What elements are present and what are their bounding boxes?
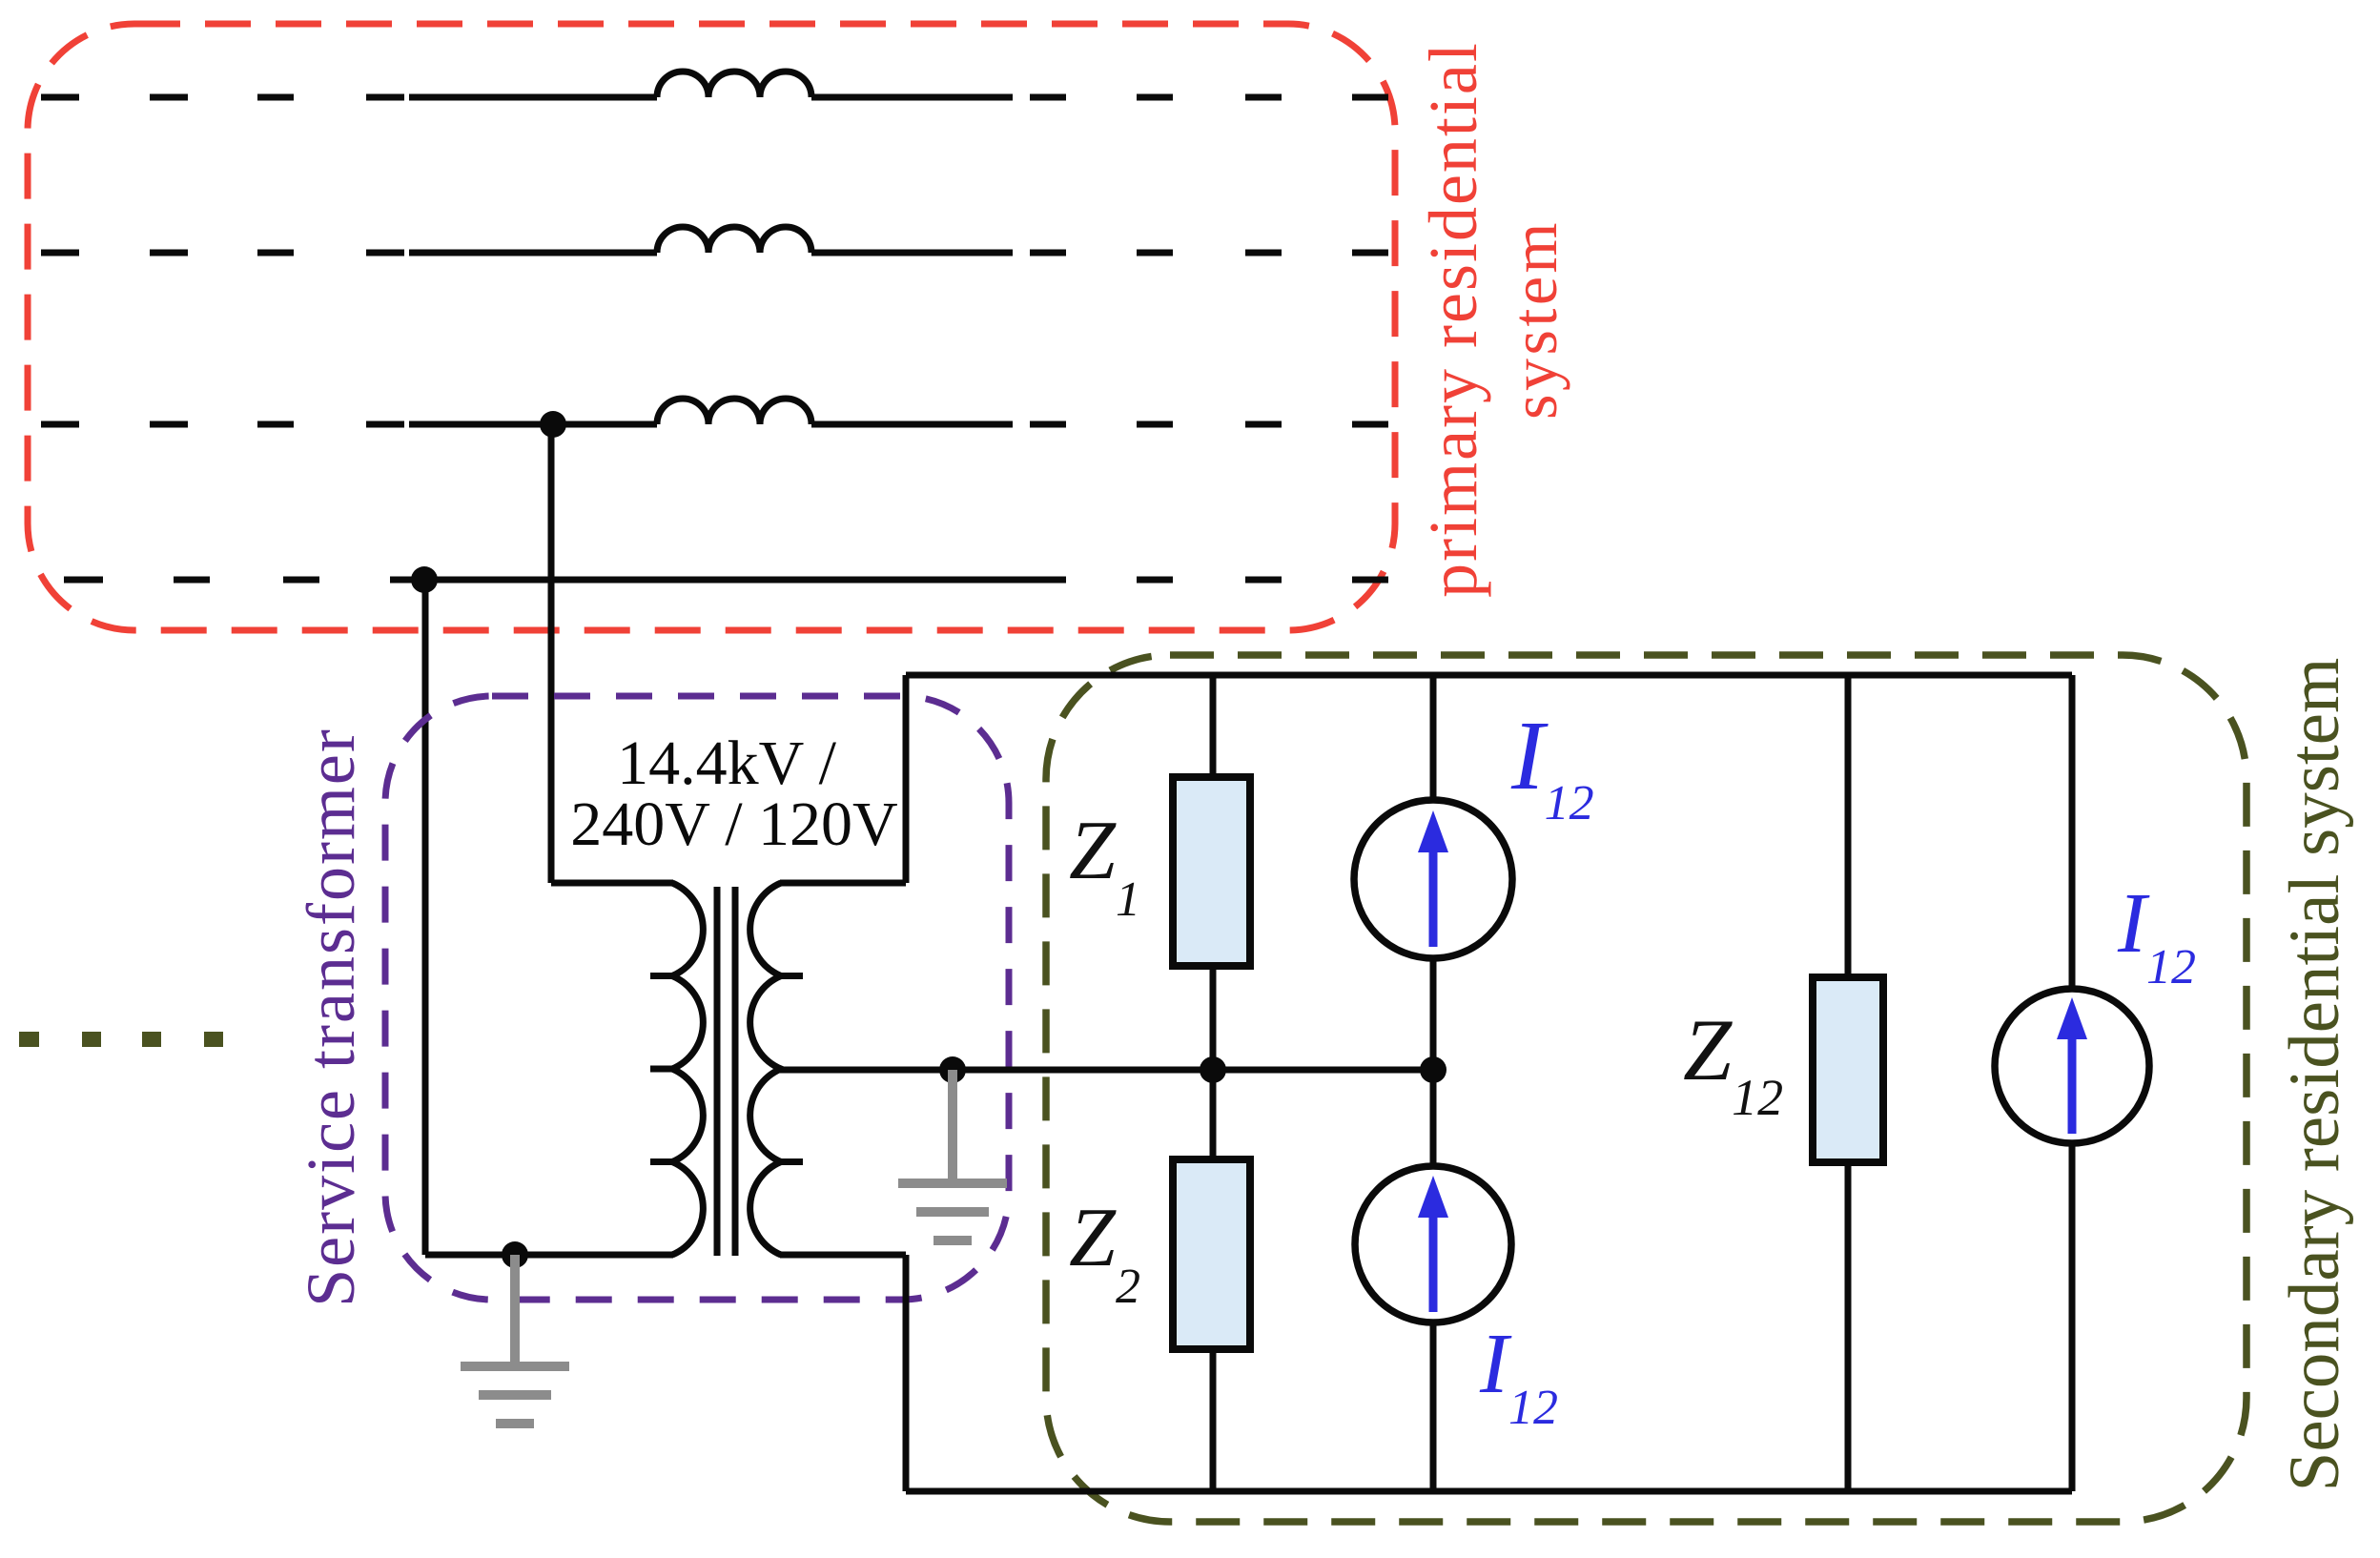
wire: secondary top riser to bus [903,675,910,883]
wire: secondary bottom lead [780,1252,906,1259]
arrow of I12 right [2057,997,2087,1134]
arrow of I12 top [1418,810,1448,947]
primary winding cusp ticks [650,976,674,1162]
svg-text:14.4kV /: 14.4kV / [617,728,836,798]
phase A line (dashed-solid) [41,94,1388,101]
current source chain wire (middle) [1430,675,1437,1491]
inductor on phase B [657,227,811,253]
impedance Z1 [1173,777,1250,966]
wire: secondary bus bottom rail [906,1488,2072,1495]
wire: secondary bus top rail [906,672,2072,679]
node: neutral tap junction [411,566,438,593]
current source I12 (top) [1354,800,1512,958]
node: phase C tap junction [540,411,566,438]
arrow of I12 bottom [1418,1176,1448,1312]
svg-text:Service transformer: Service transformer [293,728,369,1307]
wire: neutral / center tap [780,1067,1433,1074]
impedance Z12 [1813,977,1883,1162]
svg-text:Secondary residential system: Secondary residential system [2275,658,2354,1492]
wire: transformer primary bottom lead [425,1252,673,1259]
phase B line [41,250,1388,256]
svg-text:primary residential: primary residential [1415,41,1491,598]
inductor on phase C [657,399,811,424]
impedance Z12 branch wire [1845,675,1852,1491]
phase C line [41,421,1388,428]
impedance Z1 branch wire [1210,675,1217,1491]
olive dotted continuation segment [19,1032,223,1047]
right branch wire [2069,675,2076,1491]
label: primary residential system [1415,41,1570,598]
inductor on phase A [657,72,811,97]
current source I12 (bottom) [1355,1166,1511,1322]
transformer core [717,887,735,1256]
wire: secondary bottom drop to bus [903,1255,910,1491]
wire: transformer primary top lead [551,880,673,887]
Secondary residential system boundary (olive dashed box) [1046,655,2247,1522]
wire: secondary top lead [780,880,906,887]
svg-text:system: system [1498,219,1570,420]
svg-text:240V / 120V: 240V / 120V [570,789,897,859]
transformer secondary winding [750,883,781,1255]
current source I12 (right) [1995,989,2149,1143]
node: neutral-Z junction [1200,1056,1226,1083]
neutral line (dashed-solid) [64,577,1388,584]
Service transformer boundary (purple dashed box) [385,696,1009,1300]
ground: primary side [461,1255,569,1424]
node: primary bottom ground junction [502,1241,528,1268]
impedance Z2 [1173,1159,1250,1349]
transformer primary winding [672,883,703,1255]
wire: neutral drop to transformer primary bottom [422,580,429,1255]
ground: center tap [898,1070,1007,1240]
secondary winding cusp ticks [779,976,803,1162]
label: transformer ratio 14.4kV / 240V / 120V [570,728,897,859]
node: neutral-source junction [1420,1056,1446,1083]
wire: phase C drop to transformer primary [548,424,555,883]
primary residential system boundary (red dashed box) [28,24,1395,630]
node: center tap ground junction [939,1056,966,1083]
